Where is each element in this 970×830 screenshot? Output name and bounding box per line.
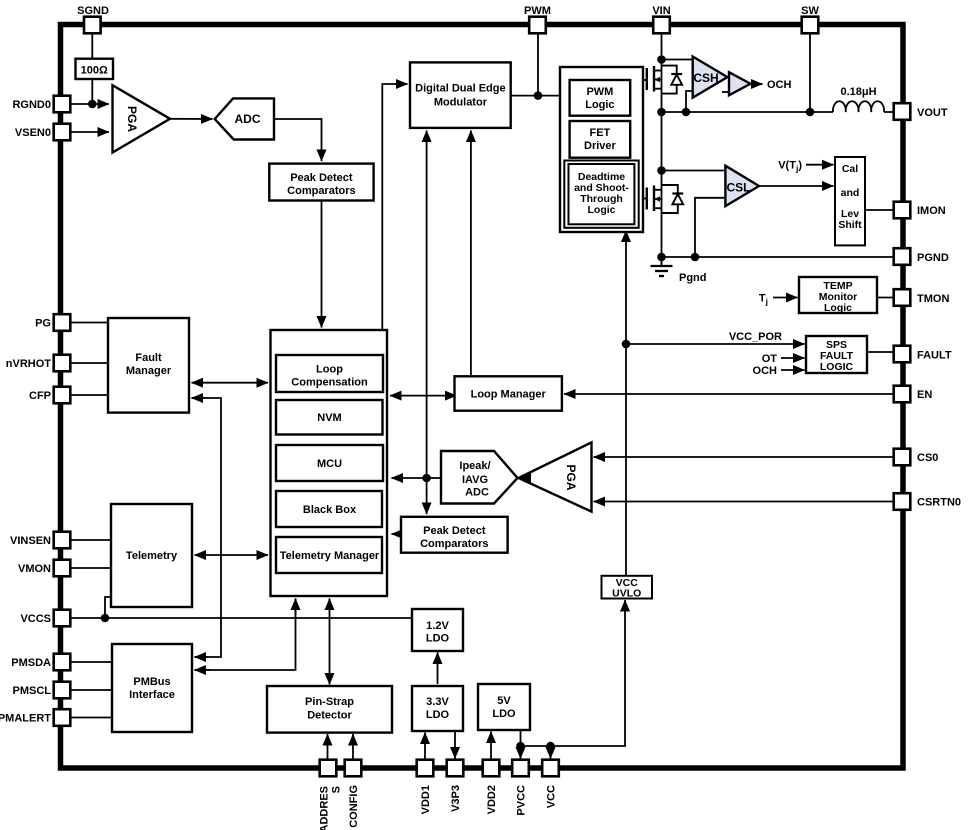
svg-text:VOUT: VOUT	[917, 107, 948, 119]
pad PG	[54, 314, 71, 331]
svg-text:IMON: IMON	[917, 205, 946, 217]
svg-text:ADC: ADC	[465, 487, 489, 499]
wire Telemetry to MCU stack bidirectional	[195, 554, 269, 556]
svg-text:PWM: PWM	[524, 5, 551, 17]
svg-text:LDO: LDO	[492, 708, 516, 720]
wire VMON to Telemetry	[71, 567, 112, 569]
svg-text:3.3V: 3.3V	[426, 696, 449, 708]
svg-text:TMON: TMON	[917, 293, 949, 305]
svg-text:VCCS: VCCS	[20, 613, 51, 625]
transistor Q1 source stub	[654, 88, 662, 90]
block Deadtime and Shoot-Through Logic inner	[569, 164, 635, 224]
pad CSRTN0	[894, 493, 911, 510]
node phase CSH tap junction	[682, 108, 691, 117]
wire EN to Loop Manager	[564, 393, 894, 395]
node VCCS junction	[101, 614, 110, 623]
block 5V LDO	[478, 684, 530, 730]
svg-text:VSEN0: VSEN0	[15, 127, 51, 139]
wire CONFIG pad to Pin-Strap Detector	[352, 734, 354, 760]
svg-text:CSH: CSH	[693, 71, 718, 85]
block Black Box	[276, 491, 382, 527]
svg-text:RGND0: RGND0	[12, 99, 51, 111]
wire DDEM bottom feedback left	[426, 131, 428, 479]
wire Peak Detect Comparators to MCU stack top	[321, 201, 323, 328]
svg-text:Detector: Detector	[307, 710, 352, 722]
wire MCU stack to Pin-Strap Detector bidirectional	[329, 599, 331, 685]
svg-text:MCU: MCU	[317, 458, 342, 470]
svg-text:CSRTN0: CSRTN0	[917, 497, 961, 509]
svg-text:Black Box: Black Box	[303, 504, 357, 516]
wire inductor to VOUT pad	[884, 111, 894, 113]
wire SGND to 100ohm resistor	[91, 33, 93, 58]
block Pin-Strap Detector	[267, 686, 392, 733]
svg-text:ADDRES: ADDRES	[319, 786, 331, 830]
wire PWM pad stub	[537, 33, 539, 95]
wire to lower Peak Detect Comparators	[426, 478, 428, 514]
node PWM junction	[534, 91, 543, 100]
pad V3P3	[447, 760, 464, 777]
svg-text:IAVG: IAVG	[462, 474, 488, 486]
svg-text:CFP: CFP	[29, 390, 51, 402]
svg-text:Modulator: Modulator	[434, 97, 488, 109]
op-amp PGA U2	[519, 442, 592, 511]
pad PMALERT	[54, 709, 71, 726]
svg-text:VMON: VMON	[18, 563, 51, 575]
svg-text:EN: EN	[917, 389, 932, 401]
svg-text:VCC: VCC	[546, 785, 558, 808]
ADC block Ipeak IAVG	[441, 451, 518, 504]
svg-text:FET: FET	[590, 127, 611, 139]
svg-text:Peak Detect: Peak Detect	[290, 172, 353, 184]
pad IMON	[894, 202, 911, 219]
op-amp PGA U1	[113, 85, 171, 152]
arrow into Fault Manager	[192, 397, 206, 399]
svg-text:Telemetry: Telemetry	[126, 550, 178, 562]
transistor Q1 channel bar	[653, 66, 655, 92]
transistor Q2 channel bar	[653, 186, 655, 212]
block Fault Manager	[108, 318, 189, 413]
buffer inverting input tick	[722, 91, 730, 93]
block SPS FAULT LOGIC	[806, 336, 867, 373]
buffer after CSH	[729, 72, 750, 95]
svg-text:Shift: Shift	[838, 219, 862, 231]
svg-text:Logic: Logic	[585, 99, 614, 111]
svg-text:Logic: Logic	[588, 204, 616, 216]
pad VSEN0	[54, 124, 71, 141]
svg-text:V(Tj): V(Tj)	[778, 160, 802, 174]
svg-text:LDO: LDO	[426, 633, 450, 645]
svg-text:Compensation: Compensation	[291, 377, 368, 389]
wire CS0 to PGA	[594, 456, 895, 458]
block NVM	[276, 400, 383, 435]
pad PWM	[529, 17, 546, 34]
svg-text:PVCC: PVCC	[516, 785, 528, 816]
node Ipeak feedback junction	[422, 474, 431, 483]
wire PMSDA to PMBus Interface	[71, 661, 113, 663]
node Pgnd CSL junction	[691, 253, 700, 262]
wire 3.3V LDO to 1.2V LDO	[437, 653, 439, 685]
svg-text:PMSCL: PMSCL	[13, 685, 52, 697]
wire V(Tj) to Cal block	[806, 164, 834, 166]
wire VINSEN to Telemetry	[71, 539, 112, 541]
svg-text:S: S	[331, 786, 343, 793]
block FET Driver	[570, 121, 631, 158]
wire lower Peak Detect Comparators to MCU stack	[392, 533, 402, 535]
resistor 100ohm	[76, 59, 114, 79]
node SGND/RGND0 junction	[88, 100, 97, 109]
transistor Q1 body stub with arrow	[655, 79, 662, 81]
svg-text:Ipeak/: Ipeak/	[459, 460, 490, 472]
svg-text:SGND: SGND	[77, 5, 109, 17]
wire DDEM output to PWM Logic	[511, 95, 570, 97]
transistor Q2 source stub	[654, 207, 662, 209]
svg-text:OCH: OCH	[767, 79, 792, 91]
svg-text:FAULT: FAULT	[917, 350, 952, 362]
wire RGND0 to PGA input	[71, 103, 110, 105]
block 3.3V LDO	[412, 686, 463, 731]
pad RGND0	[54, 96, 71, 113]
pad VDD2	[483, 760, 500, 777]
arrow into MCU stack from PMBus	[295, 599, 297, 616]
svg-text:PGA: PGA	[125, 106, 139, 132]
wire Telemetry to VCCS net	[105, 597, 113, 618]
pad VDD1	[417, 760, 434, 777]
svg-text:Peak Detect: Peak Detect	[423, 525, 486, 537]
wire PGA output to ADC	[170, 118, 213, 120]
svg-text:PMALERT: PMALERT	[0, 713, 51, 725]
pad FAULT	[894, 346, 911, 363]
transistor Q1 drain stub	[654, 70, 662, 72]
node CSL tap junction	[657, 166, 666, 175]
pad ADDRESS	[320, 760, 337, 777]
arrow into PMBus Interface lower	[195, 669, 211, 671]
block Loop Compensation	[276, 355, 383, 392]
wire SPS fault logic to FAULT pad	[867, 351, 894, 353]
svg-text:UVLO: UVLO	[612, 588, 641, 600]
wire VIN pad down to high-side FET	[661, 33, 663, 112]
pad PGND	[894, 248, 911, 265]
svg-text:PGND: PGND	[917, 252, 949, 264]
block PWM Logic	[570, 80, 631, 116]
svg-text:nVRHOT: nVRHOT	[6, 358, 52, 370]
wire CSH lower input from phase node	[686, 91, 693, 112]
svg-text:PMBus: PMBus	[133, 676, 170, 688]
svg-text:SW: SW	[801, 5, 819, 17]
pad VMON	[54, 560, 71, 577]
svg-text:VDD1: VDD1	[420, 785, 432, 814]
svg-text:Loop Manager: Loop Manager	[471, 389, 547, 401]
svg-text:0.18μH: 0.18μH	[840, 86, 876, 98]
wire Pgnd rail to PGND pad	[662, 256, 895, 258]
pad SW	[802, 17, 819, 34]
block Digital Dual Edge Modulator	[410, 62, 511, 128]
node VCC junction	[546, 742, 555, 751]
wire phase node to inductor	[662, 111, 834, 113]
block Cal and Lev Shift	[835, 157, 865, 245]
wire CSH upper input	[662, 59, 693, 61]
wire CSL upper input	[662, 170, 726, 172]
wire DDEM bottom feedback right	[470, 131, 472, 377]
svg-text:VDD2: VDD2	[486, 785, 498, 814]
op-amp CSL	[725, 166, 759, 206]
wire SW pad to phase node	[809, 33, 811, 112]
svg-text:CONFIG: CONFIG	[348, 785, 360, 828]
svg-text:Manager: Manager	[126, 365, 172, 377]
pad TMON	[894, 289, 911, 306]
node phase left junction	[657, 108, 666, 117]
svg-text:Comparators: Comparators	[287, 185, 355, 197]
transistor Q1 high-side FET gate lead	[643, 79, 647, 81]
wire OCH output arrow	[750, 83, 762, 85]
svg-text:5V: 5V	[497, 695, 511, 707]
svg-text:V3P3: V3P3	[450, 785, 462, 812]
wire Loop Manager to MCU stack bidirectional	[390, 395, 457, 397]
svg-text:CS0: CS0	[917, 452, 938, 464]
node VCC_POR junction	[622, 340, 631, 349]
pad VOUT	[894, 103, 911, 120]
svg-text:Driver: Driver	[584, 140, 617, 152]
pad nVRHOT	[54, 355, 71, 372]
svg-text:PWM: PWM	[586, 86, 613, 98]
svg-text:ADC: ADC	[235, 112, 261, 126]
wire MCU stack to PMBus Interface	[195, 599, 296, 671]
transistor Q2 drain stub	[654, 189, 662, 191]
transistor Q2 body stub with arrow	[655, 198, 662, 200]
ADC block	[215, 98, 274, 139]
node VIN/CSH junction	[657, 55, 666, 64]
wire Fault Manager to MCU stack bidirectional	[192, 382, 269, 384]
svg-text:LDO: LDO	[426, 709, 450, 721]
svg-text:Pgnd: Pgnd	[679, 272, 707, 284]
block Loop Manager	[455, 376, 562, 410]
arrow into PMBus Interface upper	[195, 656, 209, 658]
pad CS0	[894, 449, 911, 466]
wire PMSCL to PMBus Interface	[71, 689, 113, 691]
transistor Q2 low-side FET gate lead	[643, 198, 647, 200]
arrowhead PGA output into Ipeak ADC	[519, 473, 531, 483]
wire VCC rail to PVCC pad	[520, 746, 522, 759]
block 1.2V LDO	[412, 609, 463, 651]
wire VCC_POR to SPS fault logic	[626, 343, 805, 345]
svg-text:VINSEN: VINSEN	[10, 535, 51, 547]
block PMBus Interface	[112, 644, 192, 732]
svg-text:and: and	[841, 187, 860, 199]
pad PMSCL	[54, 682, 71, 699]
transistor Q1 gate bar	[646, 68, 648, 90]
pad CONFIG	[345, 760, 362, 777]
svg-text:OCH: OCH	[753, 365, 778, 377]
block VCC UVLO	[602, 576, 653, 599]
wire VCC rail to VCC pad	[550, 746, 552, 759]
svg-text:Loop: Loop	[316, 364, 343, 376]
op-amp CSH	[693, 57, 728, 98]
svg-text:VCC_POR: VCC_POR	[729, 331, 782, 343]
wire CSL output to Cal block	[759, 185, 834, 187]
svg-text:100Ω: 100Ω	[81, 65, 108, 77]
wire CFP to Fault Manager	[71, 394, 109, 396]
pad VCCS	[54, 610, 71, 627]
pad PMSDA	[54, 654, 71, 671]
wire PG to Fault Manager	[71, 322, 109, 324]
ground Pgnd symbol	[661, 257, 663, 266]
wire OCH to SPS fault logic	[781, 369, 805, 371]
wire Ipeak ADC output to MCU	[392, 477, 442, 479]
svg-text:PMSDA: PMSDA	[11, 657, 51, 669]
svg-text:Fault: Fault	[135, 352, 162, 364]
wire MCU stack to Digital Dual Edge Modulator	[382, 84, 407, 330]
transistor Q2 gate bar	[646, 188, 648, 210]
svg-text:NVM: NVM	[317, 412, 341, 424]
wire OT to SPS fault logic	[781, 357, 805, 359]
inductor 0.18uH	[833, 101, 884, 112]
wire Tj to TEMP monitor logic	[773, 297, 798, 299]
IC outer border	[61, 25, 904, 769]
wire VSEN0 to PGA input	[71, 131, 110, 133]
pad VINSEN	[54, 532, 71, 549]
block Peak Detect Comparators lower	[401, 517, 508, 553]
pad SGND	[84, 17, 101, 34]
block Telemetry Manager	[276, 537, 382, 573]
node Pgnd left junction	[657, 253, 666, 262]
wire ADDRESS pad to Pin-Strap Detector	[327, 734, 329, 760]
svg-text:Pin-Strap: Pin-Strap	[305, 696, 354, 708]
block Deadtime and Shoot-Through Logic outer	[564, 161, 638, 228]
wire VDD2 pad to 5V LDO	[490, 732, 492, 761]
wire TEMP monitor logic to TMON pad	[877, 297, 894, 299]
node PVCC junction	[516, 742, 525, 751]
wire ADC to Peak Detect Comparators	[274, 119, 322, 161]
svg-text:CSL: CSL	[727, 181, 751, 195]
svg-text:Tj: Tj	[759, 293, 768, 307]
wire CSL lower input from Pgnd	[695, 198, 725, 257]
pad EN	[894, 386, 911, 403]
wire 100ohm resistor to RGND0 net	[91, 79, 93, 104]
svg-text:Logic: Logic	[824, 302, 852, 314]
svg-text:OT: OT	[762, 353, 778, 365]
block MCU	[276, 445, 383, 481]
svg-text:Interface: Interface	[129, 689, 175, 701]
wire CSRTN0 to PGA	[594, 501, 895, 503]
svg-text:Telemetry Manager: Telemetry Manager	[280, 550, 380, 562]
wire PMALERT to PMBus Interface	[71, 717, 113, 719]
pad VIN	[653, 17, 670, 34]
node phase SW junction	[806, 108, 815, 117]
diode D2 body diode of Q2	[662, 185, 678, 194]
pad CFP	[54, 387, 71, 404]
svg-text:PGA: PGA	[564, 464, 578, 490]
wire 3.3V LDO to V3P3 pad	[454, 731, 456, 759]
svg-text:VIN: VIN	[652, 5, 670, 17]
svg-text:PG: PG	[35, 318, 51, 330]
svg-text:1.2V: 1.2V	[426, 620, 449, 632]
wire nVRHOT to Fault Manager	[71, 362, 109, 364]
pad PVCC	[512, 760, 529, 777]
svg-text:Comparators: Comparators	[420, 538, 488, 550]
wire Fault Manager to PMBus link vertical	[192, 398, 222, 657]
wire VDD1 pad to 3.3V LDO	[424, 733, 426, 761]
block MCU stack container	[271, 330, 388, 596]
pad VCC	[542, 760, 559, 777]
wire 5V LDO output rail	[521, 600, 626, 746]
wire VCCS to 1.2V LDO	[71, 617, 413, 619]
diode D1 body diode of Q1	[662, 66, 677, 74]
svg-text:Cal: Cal	[842, 163, 858, 175]
svg-text:Digital Dual Edge: Digital Dual Edge	[415, 83, 505, 95]
wire VCC UVLO to Deadtime logic	[625, 231, 627, 576]
wire high-side FET source to low-side FET drain	[661, 112, 663, 257]
block gate driver container	[560, 67, 643, 232]
wire Cal block to IMON pad	[865, 209, 894, 211]
block Peak Detect Comparators upper	[269, 164, 373, 201]
svg-text:LOGIC: LOGIC	[820, 361, 854, 373]
block TEMP Monitor Logic	[799, 277, 877, 313]
block Telemetry	[111, 504, 192, 607]
